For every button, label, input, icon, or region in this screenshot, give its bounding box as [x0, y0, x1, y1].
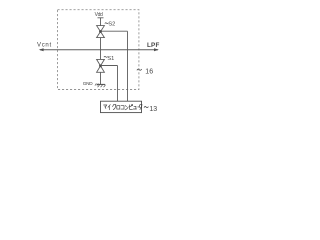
- svg-text:S2: S2: [108, 22, 115, 28]
- svg-text:GND: GND: [83, 81, 93, 86]
- svg-text:13: 13: [149, 106, 157, 113]
- svg-text:Vcnt: Vcnt: [37, 42, 52, 48]
- svg-text:S1: S1: [107, 56, 114, 62]
- svg-text:Vdd: Vdd: [95, 12, 103, 18]
- svg-text:16: 16: [145, 68, 153, 75]
- svg-text:LPF: LPF: [147, 42, 160, 49]
